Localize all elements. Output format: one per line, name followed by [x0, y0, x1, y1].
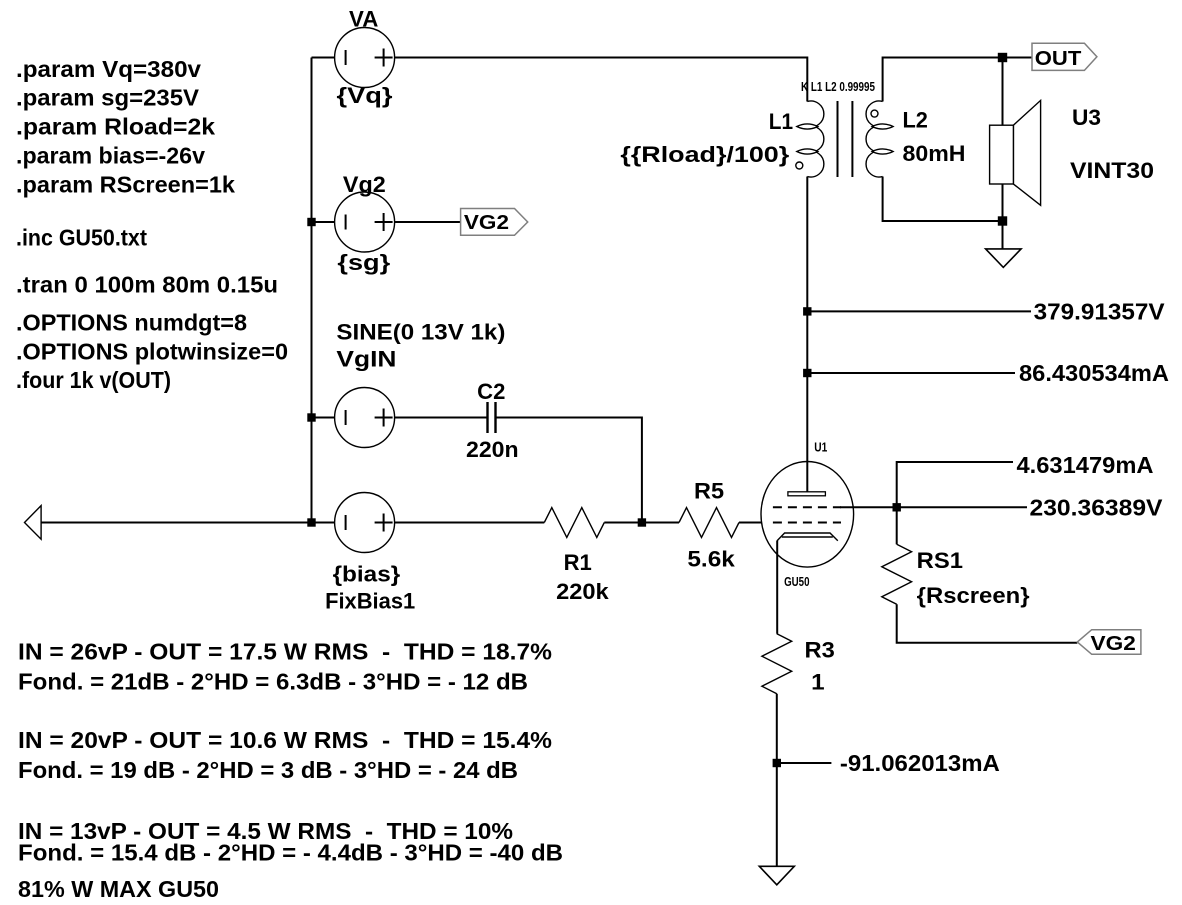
- svg-text:.OPTIONS plotwinsize=0: .OPTIONS plotwinsize=0: [16, 338, 288, 364]
- ground bottom: [759, 866, 794, 885]
- svg-text:IN = 26vP - OUT = 17.5 W RMS: IN = 26vP - OUT = 17.5 W RMS - THD = 18.…: [18, 639, 552, 665]
- wire RS1 to VG2 port: [897, 604, 1078, 642]
- value 220k: [556, 579, 609, 604]
- wire left vertical bus: [311, 58, 313, 523]
- resistor RS1: [882, 544, 912, 604]
- phase dot L1: [796, 162, 803, 169]
- svg-text:Vg2: Vg2: [343, 172, 386, 197]
- value 80mH: [903, 141, 966, 166]
- value {{Rload}/100}: [620, 142, 789, 167]
- svg-text:{Vq}: {Vq}: [337, 83, 394, 108]
- wire R1 to R5: [604, 522, 679, 524]
- wire speaker bottom to ground: [1002, 184, 1004, 249]
- junction node VgIN bus: [307, 413, 315, 421]
- junction node C2/R1/R5: [638, 518, 646, 526]
- svg-text:U3: U3: [1072, 105, 1101, 130]
- svg-text:L2: L2: [903, 108, 928, 133]
- svg-text:R1: R1: [564, 550, 592, 575]
- value SINE(0 13V 1k): [336, 320, 505, 345]
- svg-text:L1: L1: [769, 109, 793, 134]
- svg-text:Fond. = 21dB - 2°HD = 6.3dB -: Fond. = 21dB - 2°HD = 6.3dB - 3°HD = - 1…: [18, 668, 528, 694]
- wire VgIN row to C2: [312, 417, 488, 419]
- svg-text:VINT30: VINT30: [1070, 158, 1154, 183]
- svg-text:230.36389V: 230.36389V: [1030, 494, 1164, 520]
- wire screen node to RS1: [896, 507, 898, 544]
- wire anode current probe stub: [807, 372, 1015, 374]
- label U1: [814, 441, 827, 455]
- svg-text:5.6k: 5.6k: [687, 547, 735, 572]
- speaker U3: [990, 100, 1041, 205]
- svg-text:RS1: RS1: [917, 548, 963, 573]
- svg-text:SINE(0 13V 1k): SINE(0 13V 1k): [336, 320, 505, 345]
- wire L2 top to OUT: [883, 58, 1032, 102]
- value {Rscreen}: [917, 583, 1030, 608]
- svg-text:{bias}: {bias}: [333, 561, 401, 586]
- svg-text:{Rscreen}: {Rscreen}: [917, 583, 1030, 608]
- svg-text:81% W MAX GU50: 81% W MAX GU50: [18, 876, 219, 902]
- svg-text:IN = 20vP - OUT = 10.6 W RMS: IN = 20vP - OUT = 10.6 W RMS - THD = 15.…: [18, 727, 552, 753]
- junction node screen: [893, 503, 901, 511]
- wire screen grid to node: [840, 506, 897, 508]
- value 220n: [466, 437, 519, 462]
- svg-text:220n: 220n: [466, 437, 519, 462]
- svg-text:.param Vq=380v: .param Vq=380v: [16, 56, 201, 82]
- wire cathode current probe stub: [777, 762, 832, 764]
- voltage source Vg2: [335, 192, 395, 252]
- label R5: [694, 479, 724, 504]
- node probe text 230.36389V: [1030, 494, 1164, 520]
- svg-text:220k: 220k: [556, 579, 609, 604]
- svg-text:.inc GU50.txt: .inc GU50.txt: [16, 225, 147, 251]
- svg-text:VgIN: VgIN: [336, 347, 396, 372]
- svg-text:1: 1: [811, 670, 825, 695]
- wire bias row left: [41, 522, 544, 524]
- wire Vg2 row: [312, 221, 461, 223]
- resistor R1: [544, 508, 604, 538]
- wire C2 to R1 node: [496, 418, 642, 523]
- wire top rail VA to L1: [312, 58, 808, 102]
- wire R5 to tube grid: [739, 522, 762, 524]
- label R1: [564, 550, 592, 575]
- svg-text:FixBias1: FixBias1: [325, 589, 415, 614]
- label GU50: [784, 575, 809, 589]
- port VG2 input flag: [1077, 630, 1141, 655]
- svg-text:VA: VA: [349, 7, 378, 32]
- svg-text:.param bias=-26v: .param bias=-26v: [16, 142, 205, 168]
- svg-text:Fond. = 15.4 dB - 2°HD = - 4.4: Fond. = 15.4 dB - 2°HD = - 4.4dB - 3°HD …: [18, 839, 563, 865]
- svg-text:OUT: OUT: [1035, 48, 1082, 70]
- transformer core: [838, 101, 853, 177]
- svg-text:VG2: VG2: [464, 212, 509, 234]
- left input arrow port: [25, 506, 42, 540]
- svg-text:U1: U1: [814, 441, 827, 455]
- svg-text:R3: R3: [805, 638, 835, 663]
- wire anode line L1 to tube: [806, 177, 808, 493]
- svg-text:C2: C2: [477, 379, 505, 404]
- tube U1 GU50: [761, 462, 854, 568]
- svg-text:.tran 0 100m 80m 0.15u: .tran 0 100m 80m 0.15u: [16, 272, 278, 298]
- svg-text:.param RScreen=1k: .param RScreen=1k: [16, 171, 235, 197]
- port OUT flag: [1032, 43, 1097, 70]
- spice directives text block: [16, 56, 288, 393]
- label VgIN: [336, 347, 396, 372]
- inductor L1 primary winding: [797, 101, 824, 177]
- ground top right: [986, 249, 1022, 268]
- capacitor C2: [488, 402, 496, 433]
- wire OUT node to speaker top: [1002, 58, 1004, 126]
- svg-text:.param Rload=2k: .param Rload=2k: [16, 114, 215, 140]
- node probe text -91.062013mA: [840, 750, 1000, 776]
- svg-text:{sg}: {sg}: [337, 250, 390, 275]
- junction node VG2 bus: [307, 218, 315, 226]
- junction node bias bus: [307, 518, 315, 526]
- wire cathode to R3: [776, 541, 778, 634]
- inductor L2 secondary winding: [866, 101, 893, 177]
- voltage source VgIN: [335, 388, 395, 448]
- value {sg}: [337, 250, 390, 275]
- svg-text:4.631479mA: 4.631479mA: [1017, 452, 1154, 478]
- label RS1: [917, 548, 963, 573]
- label FixBias1: [325, 589, 415, 614]
- svg-text:Fond. = 19 dB - 2°HD = 3 dB -: Fond. = 19 dB - 2°HD = 3 dB - 3°HD = - 2…: [18, 757, 518, 783]
- svg-text:-91.062013mA: -91.062013mA: [840, 750, 1000, 776]
- label U3: [1072, 105, 1101, 130]
- svg-text:379.91357V: 379.91357V: [1034, 298, 1166, 324]
- junction node speaker bottom: [998, 216, 1007, 225]
- svg-text:80mH: 80mH: [903, 141, 966, 166]
- value 5.6k: [687, 547, 735, 572]
- resistor R5: [679, 508, 739, 538]
- junction node anode V probe: [803, 307, 811, 315]
- label C2: [477, 379, 505, 404]
- svg-text:VG2: VG2: [1091, 633, 1136, 655]
- svg-text:.four 1k v(OUT): .four 1k v(OUT): [16, 367, 171, 393]
- resistor R3: [762, 634, 792, 694]
- node probe text 86.430534mA: [1019, 360, 1169, 386]
- label R3: [805, 638, 835, 663]
- label Vg2: [343, 172, 386, 197]
- junction node cathode I probe: [773, 759, 781, 767]
- wire screen current probe stub: [897, 462, 1013, 507]
- wire L2 bottom to speaker bottom: [883, 177, 1003, 222]
- voltage source VA: [335, 28, 395, 88]
- wire R3 to ground: [776, 694, 778, 867]
- node probe text 4.631479mA: [1017, 452, 1154, 478]
- svg-text:R5: R5: [694, 479, 724, 504]
- node probe text 379.91357V: [1034, 298, 1166, 324]
- value VINT30: [1070, 158, 1154, 183]
- K statement text: [801, 80, 875, 94]
- svg-text:GU50: GU50: [784, 575, 809, 589]
- phase dot L2: [871, 110, 878, 117]
- svg-text:K L1 L2 0.99995: K L1 L2 0.99995: [801, 80, 875, 94]
- label VA: [349, 7, 378, 32]
- label L2: [903, 108, 928, 133]
- wire anode voltage probe stub: [807, 310, 1031, 312]
- svg-text:.OPTIONS numdgt=8: .OPTIONS numdgt=8: [16, 309, 247, 335]
- svg-text:{{Rload}/100}: {{Rload}/100}: [620, 142, 789, 167]
- value {bias}: [333, 561, 401, 586]
- wire screen voltage probe stub: [897, 506, 1027, 508]
- svg-text:.param sg=235V: .param sg=235V: [16, 85, 200, 111]
- voltage source FixBias1: [335, 493, 395, 553]
- port VG2 output flag: [461, 209, 528, 236]
- svg-text:86.430534mA: 86.430534mA: [1019, 360, 1169, 386]
- junction node OUT: [998, 53, 1007, 62]
- junction node anode I probe: [803, 369, 811, 377]
- value {Vq}: [337, 83, 394, 108]
- results annotation text block: [18, 639, 563, 903]
- value 1: [811, 670, 825, 695]
- label L1: [769, 109, 793, 134]
